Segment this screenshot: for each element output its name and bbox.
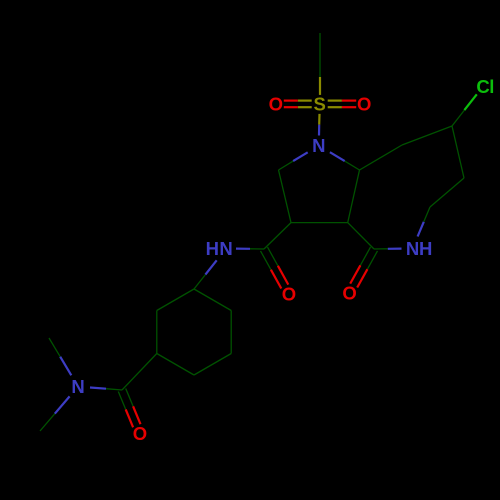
bond ring-carbonyl bottom left bbox=[122, 354, 157, 391]
bond CHCl-CH2 top right bbox=[402, 126, 452, 145]
svg-text:O: O bbox=[269, 93, 283, 114]
bond C4-carbonyl right bbox=[348, 223, 374, 249]
bond C2-C3 bbox=[279, 170, 292, 223]
cyclohexane bond h2-h3 bbox=[156, 311, 158, 354]
bond S-N1 bbox=[318, 114, 320, 125]
bond N1-C2 pyrrolidine bbox=[293, 152, 308, 161]
svg-text:l: l bbox=[489, 76, 494, 97]
bond C3-carbonyl left bbox=[264, 223, 291, 249]
svg-text:C: C bbox=[476, 76, 489, 97]
svg-text:N: N bbox=[219, 238, 232, 259]
cyclohexane bond h6-h1 bbox=[194, 289, 231, 311]
C=O right amide double bond bbox=[360, 247, 370, 265]
C=O dimethylamide double bond bbox=[118, 392, 125, 410]
bond C-Cl bbox=[452, 110, 464, 126]
svg-text:N: N bbox=[312, 135, 325, 156]
cyclohexane bond h4-h5 bbox=[194, 354, 231, 376]
cyclohexane bond h5-h6 bbox=[230, 311, 232, 354]
bond carbonyl-N anilide bbox=[250, 248, 264, 250]
bond CH2-CHCl bbox=[452, 126, 464, 178]
bond NH-CH2 ring right bbox=[418, 222, 424, 237]
svg-text:S: S bbox=[314, 93, 326, 114]
S=O right double bond bbox=[328, 106, 342, 108]
bond N1-C5 pyrrolidine bbox=[330, 152, 345, 161]
svg-text:O: O bbox=[357, 93, 371, 114]
cyclohexane bond h1-h2 bbox=[157, 289, 194, 311]
svg-text:O: O bbox=[342, 283, 356, 304]
bond C3-C4 bbox=[291, 222, 348, 224]
svg-text:O: O bbox=[133, 423, 147, 444]
bond carbonyl-NH right bbox=[374, 248, 388, 250]
methyl 2 on dimethylamino N bbox=[55, 396, 70, 413]
bond CH2-C5 bbox=[360, 145, 403, 170]
svg-text:H: H bbox=[419, 238, 432, 259]
svg-text:H: H bbox=[206, 238, 219, 259]
methyl 1 on dimethylamino N bbox=[60, 357, 71, 376]
svg-text:N: N bbox=[71, 376, 84, 397]
bond CH2-CH2 right bbox=[430, 178, 464, 207]
bond carbonyl-N dimethylamino bbox=[106, 389, 122, 390]
methyl CH3 on sulfonyl S bbox=[319, 33, 321, 77]
S=O left double bond bbox=[298, 106, 312, 108]
bond HN-cyclohexyl bbox=[205, 260, 216, 274]
cyclohexane bond h3-h4 bbox=[157, 354, 194, 376]
C=O left amide double bond bbox=[261, 251, 271, 270]
bond C4-C5 bbox=[348, 170, 360, 223]
svg-text:O: O bbox=[282, 284, 296, 305]
svg-text:N: N bbox=[406, 238, 419, 259]
